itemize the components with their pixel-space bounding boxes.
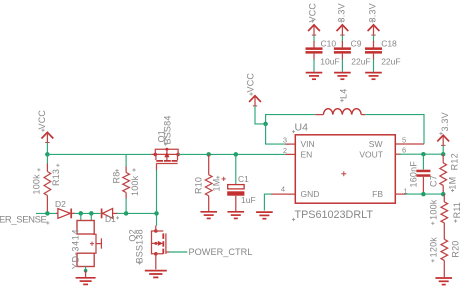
capacitor C7	[416, 154, 430, 194]
pin 3 VIN	[286, 143, 296, 145]
svg-text:VCC: VCC	[246, 73, 256, 93]
svg-text:BSS138: BSS138	[135, 229, 145, 263]
label origin cross marks	[37, 19, 457, 264]
ground	[365, 73, 382, 80]
svg-text:4: 4	[281, 184, 285, 193]
wire inductor to SW	[365, 115, 424, 144]
svg-text:160nF: 160nF	[409, 161, 419, 188]
svg-text:C18: C18	[381, 39, 397, 49]
svg-text:120k: 120k	[428, 237, 438, 258]
diode D1 (cathode left)	[102, 209, 118, 219]
ground	[306, 73, 323, 80]
wire	[341, 54, 343, 60]
svg-text:ER_SENSE: ER_SENSE	[0, 215, 47, 226]
wire up to inductor rail	[266, 115, 316, 124]
power symbol 3.3V arrow	[437, 135, 449, 145]
wire VCC to VIN node	[255, 106, 266, 124]
node Q1 gate junction	[154, 211, 159, 216]
svg-text:D2: D2	[55, 199, 66, 209]
svg-text:BSS84: BSS84	[163, 115, 173, 144]
ground	[76, 278, 96, 285]
svg-text:SW: SW	[369, 139, 383, 149]
node C7 top junction	[421, 152, 426, 157]
capacitor C9	[334, 47, 351, 53]
svg-text:22uF: 22uF	[351, 57, 370, 67]
node R13 bottom junction	[45, 211, 50, 216]
node R10 junction	[206, 152, 211, 157]
svg-text:C9: C9	[351, 39, 362, 49]
svg-text:R20: R20	[450, 241, 460, 258]
svg-text:U4: U4	[295, 122, 309, 134]
wire	[313, 59, 315, 72]
pin 1 FB	[395, 193, 406, 195]
resistor R13	[46, 154, 48, 164]
svg-text:R13: R13	[51, 169, 61, 186]
resistor R12	[442, 154, 444, 163]
svg-text:R8: R8	[112, 172, 122, 184]
svg-text:YD-3414: YD-3414	[71, 229, 81, 269]
svg-text:EN: EN	[301, 150, 313, 160]
resistor R8	[125, 154, 127, 167]
power symbol 3.3V arrow	[368, 25, 380, 35]
svg-text:C1: C1	[238, 174, 249, 184]
svg-text:100k: 100k	[32, 174, 42, 195]
svg-text:VCC: VCC	[37, 110, 47, 130]
node YD pin1 junction	[79, 211, 84, 216]
wire 3.3V stem	[442, 145, 444, 154]
wire	[46, 143, 48, 155]
capacitor C1 (polarized)	[222, 154, 245, 211]
ground	[334, 73, 351, 80]
capacitor C10	[306, 47, 323, 53]
transistor Q2 BSS138	[152, 226, 170, 270]
svg-text:R10: R10	[194, 177, 204, 194]
buzzer YD-3414	[77, 213, 101, 277]
diode D2	[56, 209, 75, 219]
svg-text:3.3V: 3.3V	[440, 112, 450, 131]
svg-text:1uF: 1uF	[241, 195, 256, 205]
ground	[200, 212, 217, 219]
wire Q2 drain	[156, 213, 158, 225]
wire FB rail	[405, 193, 443, 195]
ground	[228, 212, 245, 219]
node C7 bottom junction	[421, 192, 426, 197]
wire	[117, 212, 157, 214]
svg-text:D1: D1	[105, 214, 116, 224]
svg-text:100k: 100k	[428, 199, 438, 220]
node YD pin2 junction	[89, 211, 94, 216]
node 3.3V junction	[441, 152, 446, 157]
wire	[373, 41, 375, 48]
svg-text:VOUT: VOUT	[359, 150, 383, 160]
wire Q1 gate down	[156, 170, 158, 214]
wire	[341, 59, 343, 72]
wire	[313, 35, 315, 42]
resistor R11	[443, 194, 445, 202]
svg-text:1M: 1M	[212, 179, 222, 192]
wire Q1 drain to EN	[178, 153, 289, 155]
pin 6 VOUT	[395, 153, 400, 155]
svg-text:C10: C10	[321, 39, 337, 49]
op-amp U4 TPS61023DRLT (IC body)	[295, 135, 395, 203]
svg-text:5: 5	[402, 135, 406, 144]
power symbol VCC arrow	[308, 25, 320, 35]
wire down to VIN pin	[266, 124, 290, 144]
ground	[145, 271, 167, 278]
wire	[373, 59, 375, 72]
wire	[341, 35, 343, 42]
wire	[341, 41, 343, 48]
svg-text:22uF: 22uF	[381, 57, 400, 67]
pin 2 EN	[286, 153, 296, 155]
wire VCC rail to Q1	[47, 153, 151, 155]
wire	[373, 35, 375, 42]
resistor R10	[208, 154, 210, 174]
svg-text:L4: L4	[338, 89, 348, 99]
svg-text:1M: 1M	[448, 177, 458, 190]
pin 4 GND	[271, 193, 296, 195]
resistor R20	[441, 239, 448, 260]
svg-text:10uF: 10uF	[320, 57, 339, 67]
svg-text:2: 2	[283, 146, 287, 155]
wire VOUT rail	[400, 153, 444, 155]
svg-text:R11: R11	[452, 202, 462, 218]
svg-text:6: 6	[402, 146, 406, 155]
svg-text:100k: 100k	[130, 175, 140, 196]
inductor L4	[315, 109, 365, 115]
ground	[256, 212, 273, 219]
node FB divider junction	[441, 192, 446, 197]
power symbol VCC arrow	[42, 132, 54, 142]
transistor Q1 BSS84	[151, 148, 180, 171]
wire	[373, 54, 375, 60]
IC center cross	[341, 171, 346, 176]
wire	[313, 54, 315, 60]
power symbol 3.3V arrow	[337, 25, 349, 35]
node R8 bottom junction	[124, 211, 129, 216]
svg-text:POWER_CTRL: POWER_CTRL	[189, 247, 253, 257]
capacitor C18	[365, 47, 382, 53]
svg-text:TPS61023DRLT: TPS61023DRLT	[295, 209, 374, 221]
svg-text:GND: GND	[301, 189, 320, 199]
wire Q2 gate to label	[169, 251, 188, 253]
ground	[435, 278, 452, 285]
wire GND pin to ground	[264, 194, 271, 210]
power symbol VCC arrow	[249, 96, 261, 106]
node VCC junction	[45, 152, 50, 157]
wire	[313, 41, 315, 48]
svg-text:FB: FB	[372, 189, 383, 199]
svg-text:VIN: VIN	[301, 139, 315, 149]
svg-text:C7: C7	[428, 175, 438, 187]
node VIN junction	[263, 122, 268, 127]
wire	[74, 212, 101, 214]
svg-text:R12: R12	[449, 153, 459, 170]
svg-text:3: 3	[283, 135, 287, 144]
node C1 junction	[234, 152, 239, 157]
wire sense row	[36, 212, 57, 214]
wire SW pin	[395, 143, 424, 145]
